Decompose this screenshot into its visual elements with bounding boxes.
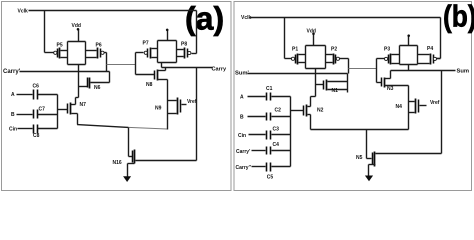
svg-text:B: B <box>11 112 15 118</box>
svg-text:C6: C6 <box>33 84 40 90</box>
svg-text:P4: P4 <box>427 46 433 52</box>
svg-text:N1: N1 <box>332 88 339 94</box>
svg-text:N3: N3 <box>387 86 394 92</box>
svg-text:N6: N6 <box>94 85 101 91</box>
svg-text:C8: C8 <box>33 133 40 139</box>
svg-text:Carry': Carry' <box>236 149 250 155</box>
svg-text:B: B <box>240 115 244 121</box>
svg-text:N16: N16 <box>113 160 122 166</box>
svg-text:Sum': Sum' <box>235 71 250 77</box>
svg-text:Carry': Carry' <box>3 69 21 75</box>
svg-text:Vref: Vref <box>430 100 440 106</box>
svg-text:P5: P5 <box>57 43 63 49</box>
svg-text:(a): (a) <box>185 1 224 37</box>
svg-text:Carry: Carry <box>212 67 228 73</box>
svg-text:Vref: Vref <box>187 99 197 105</box>
svg-text:(b): (b) <box>443 0 474 34</box>
svg-text:Vdd: Vdd <box>307 29 316 35</box>
svg-text:C5: C5 <box>267 174 274 180</box>
svg-text:N8: N8 <box>146 82 153 88</box>
svg-text:Vclk: Vclk <box>18 9 29 15</box>
svg-text:C4: C4 <box>273 142 280 148</box>
svg-text:N7: N7 <box>80 102 87 108</box>
svg-text:C2: C2 <box>275 108 282 114</box>
svg-text:C7: C7 <box>39 107 46 113</box>
svg-text:Cin: Cin <box>9 126 17 132</box>
svg-text:N4: N4 <box>396 104 403 110</box>
svg-text:P8: P8 <box>181 41 187 47</box>
svg-text:P7: P7 <box>143 41 149 47</box>
svg-text:Carry'': Carry'' <box>236 165 251 171</box>
svg-text:N9: N9 <box>155 105 162 111</box>
svg-text:P1: P1 <box>292 46 298 52</box>
svg-text:A: A <box>240 95 244 101</box>
svg-text:A: A <box>11 92 15 98</box>
svg-text:P2: P2 <box>331 46 337 52</box>
svg-text:N2: N2 <box>317 108 324 114</box>
svg-text:P6: P6 <box>96 43 102 49</box>
svg-text:C1: C1 <box>266 86 273 92</box>
svg-text:Vclk: Vclk <box>241 15 252 21</box>
svg-text:Sum: Sum <box>457 69 470 75</box>
svg-text:C3: C3 <box>273 126 280 132</box>
svg-text:P3: P3 <box>384 47 390 53</box>
svg-text:Cin: Cin <box>238 133 246 139</box>
svg-text:Vdd: Vdd <box>72 23 81 29</box>
svg-text:N5: N5 <box>356 155 363 161</box>
